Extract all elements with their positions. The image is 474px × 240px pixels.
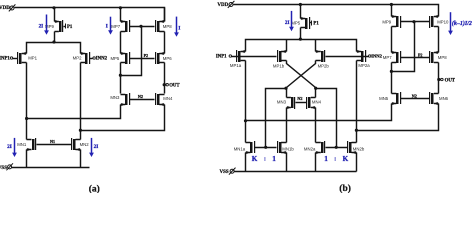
wire L node to MN3 drain xyxy=(286,89,288,98)
wire node A column (b) xyxy=(245,61,247,143)
junction rail-MP9 (b) xyxy=(390,3,393,6)
svg-text:P2: P2 xyxy=(144,53,148,58)
svg-text:I: I xyxy=(178,25,180,31)
wire MP7 source to rail xyxy=(120,8,122,22)
wire INP1 to MP1 gate xyxy=(13,58,18,60)
svg-text:P1: P1 xyxy=(67,25,73,30)
junction R node xyxy=(314,87,317,90)
wire MN4 source to MN2a drain xyxy=(315,108,317,143)
svg-text:VSS: VSS xyxy=(220,170,229,175)
transistor MP9 (b) xyxy=(392,17,397,27)
wire OUT stub (b) xyxy=(439,79,441,81)
svg-text:N1: N1 xyxy=(50,139,55,144)
transistor MP1 xyxy=(22,54,27,63)
terminal INP1 (b) xyxy=(229,55,231,57)
transistor MP5 (tail b) xyxy=(301,19,306,28)
transistor MP2 xyxy=(81,54,86,63)
wire input source bus (a) xyxy=(27,43,81,54)
current arrow 2I tail (b) xyxy=(291,11,293,28)
current arrow I right (a) xyxy=(176,17,178,34)
svg-text:(b): (b) xyxy=(339,183,351,193)
transistor MN1a xyxy=(246,143,251,153)
transistor MN2 xyxy=(76,140,81,150)
current arrow (k-1)I/2 xyxy=(450,12,452,31)
wire node B column (b) xyxy=(356,61,358,143)
transistor MP5 xyxy=(121,54,126,63)
svg-text:VSS: VSS xyxy=(0,166,7,171)
svg-text:INN2: INN2 xyxy=(371,54,382,59)
junction pair2 gates xyxy=(335,146,338,149)
transistor MP7 xyxy=(121,22,126,32)
wire mirror gates to cascode drain (b) xyxy=(392,22,415,72)
wire MN1a source to VSS xyxy=(245,153,247,172)
wire L node to pair1 gates xyxy=(266,89,287,148)
wire VDD rail (b) xyxy=(234,5,439,17)
svg-text:INP1: INP1 xyxy=(216,55,227,60)
svg-text:MN3: MN3 xyxy=(110,95,120,100)
wire MP1b source xyxy=(286,40,288,52)
svg-text:MP2a: MP2a xyxy=(358,63,370,68)
transistor MN5 xyxy=(392,94,397,104)
svg-text:MP2: MP2 xyxy=(73,56,82,61)
junction node B xyxy=(79,129,82,132)
junction tail-bus (b) xyxy=(299,38,302,41)
svg-text:MN4: MN4 xyxy=(312,99,322,104)
wire INP1 gate line xyxy=(232,56,277,58)
transistor MP6 xyxy=(159,54,164,63)
svg-text:MP1b: MP1b xyxy=(273,64,285,69)
transistor MN1b xyxy=(281,143,286,153)
junction node A (b) xyxy=(244,119,247,122)
svg-text:MP5: MP5 xyxy=(110,56,119,61)
junction cascode drain (a) xyxy=(119,74,122,77)
svg-text:2I: 2I xyxy=(94,144,99,150)
wire N1 gate bus xyxy=(37,144,72,146)
wire node A column xyxy=(26,63,28,140)
svg-text:VDD: VDD xyxy=(0,6,10,11)
transistor MP2a xyxy=(357,52,362,61)
wire MP9 source to rail xyxy=(391,5,393,17)
transistor MN4 (b) xyxy=(311,98,316,108)
wire INN2 gate line xyxy=(326,56,369,58)
power VSS symbol (a) xyxy=(8,165,12,169)
transistor MP9 (tail) xyxy=(55,22,59,32)
wire R node to pair2 gates xyxy=(316,89,337,148)
junction pair1 gates xyxy=(264,146,267,149)
terminal INP1 (a) xyxy=(10,57,12,59)
wire node B column xyxy=(80,63,82,140)
wire MN2b source to VSS xyxy=(356,153,358,172)
wire mirror gate bus (b) xyxy=(401,21,430,23)
transistor MP10 xyxy=(434,17,439,27)
power VSS symbol (b) xyxy=(230,169,234,173)
svg-text::: : xyxy=(334,156,336,163)
junction cascode drain (b) xyxy=(390,70,393,73)
wire N2 gate bus right (b) xyxy=(401,98,430,100)
svg-text:P2: P2 xyxy=(418,52,422,57)
svg-text:MN5: MN5 xyxy=(379,96,389,101)
wire MN1 source to VSS xyxy=(26,150,28,168)
wire MP9 drain to MP7 source xyxy=(391,27,393,53)
svg-text:OUT: OUT xyxy=(169,84,180,89)
transistor MN3 (b) xyxy=(287,98,291,108)
wire N2 gate bus center (b) xyxy=(296,102,307,104)
svg-text:K: K xyxy=(343,155,349,163)
svg-text:1: 1 xyxy=(272,155,276,163)
svg-text:MP1a: MP1a xyxy=(230,63,242,68)
svg-text::: : xyxy=(264,156,266,163)
wire MN2a source to VSS xyxy=(315,153,317,172)
svg-text:MP7: MP7 xyxy=(383,55,392,60)
svg-text:MN2b: MN2b xyxy=(353,147,365,152)
current arrow 2I left (a) xyxy=(14,138,16,154)
wire MP5 drain to MN3 drain xyxy=(120,63,122,94)
current arrow 2I right (a) xyxy=(91,138,93,154)
svg-text:K: K xyxy=(252,155,258,163)
transistor MP2b xyxy=(316,52,321,61)
tick node P1 (b) xyxy=(311,21,313,26)
wire MP2b source xyxy=(315,40,317,52)
svg-text:MN2: MN2 xyxy=(80,142,90,147)
current arrow I left (a) xyxy=(110,17,112,31)
wire OUT stub (a) xyxy=(165,84,167,86)
wire MP8 drain to MP6 source xyxy=(164,32,166,54)
svg-text:MN4: MN4 xyxy=(163,96,173,101)
wire diagonal MP1b drain xyxy=(287,61,316,88)
wire INN2 to MP2 gate xyxy=(90,58,93,60)
svg-text:I: I xyxy=(106,24,108,30)
wire P2 gate bus (a) xyxy=(130,58,155,60)
junction tail-bus (a) xyxy=(52,40,55,43)
svg-text:N2: N2 xyxy=(297,96,302,101)
transistor MP8 (b) xyxy=(434,53,439,63)
wire P2 gate bus (b) xyxy=(401,57,430,59)
transistor MP8 xyxy=(159,22,164,32)
wire node B to MN4 source xyxy=(81,105,165,131)
power VDD symbol (b) xyxy=(229,3,233,7)
svg-text:MN1a: MN1a xyxy=(234,147,246,152)
wire MP8 source to rail xyxy=(164,8,166,22)
svg-text:N2: N2 xyxy=(412,93,417,98)
wire MP6 drain to MN4 drain xyxy=(164,63,166,94)
svg-text:P1: P1 xyxy=(313,22,319,27)
junction mirror gates (a) xyxy=(139,25,142,28)
wire MP8 drain to MN6 drain xyxy=(438,63,440,94)
junction rail-tail (b) xyxy=(299,3,302,6)
wire VSS rail (a) xyxy=(12,167,90,169)
svg-text:2I: 2I xyxy=(7,144,12,150)
current arrow 2I tail (a) xyxy=(46,15,48,32)
transistor MN2a xyxy=(316,143,321,153)
svg-text:MP7: MP7 xyxy=(111,24,120,29)
terminal OUT (b) xyxy=(441,78,443,80)
wire diagonal MP2b drain xyxy=(287,61,316,88)
wire tail drain xyxy=(54,32,56,43)
transistor MP1a xyxy=(241,52,246,61)
junction node A xyxy=(25,117,28,120)
transistor MN6 xyxy=(434,94,439,104)
junction rail-tail (a) xyxy=(52,6,55,9)
svg-text:MP9: MP9 xyxy=(382,19,391,24)
wire VSS rail (b) xyxy=(235,171,357,173)
svg-text:MP10: MP10 xyxy=(437,19,449,24)
svg-text:MP8: MP8 xyxy=(163,24,172,29)
wire node A to MN3 source xyxy=(27,105,121,119)
transistor MN4 (a) xyxy=(159,95,164,105)
junction OUT (b) xyxy=(437,78,440,81)
wire R node to MN4 drain xyxy=(315,89,317,98)
wire pair2 gate bus xyxy=(326,147,348,149)
svg-text:MN1: MN1 xyxy=(17,142,27,147)
svg-text:MN1b: MN1b xyxy=(282,147,294,152)
wire MP10 drain to MP8 source xyxy=(438,27,440,53)
svg-text:(k–1)I/2: (k–1)I/2 xyxy=(452,20,472,27)
svg-text:MP8: MP8 xyxy=(438,55,447,60)
svg-text:1: 1 xyxy=(324,155,328,163)
junction rail-MP7 (a) xyxy=(119,6,122,9)
wire node A to MN5 source xyxy=(246,104,392,121)
wire gate stub P1 (b) xyxy=(310,22,312,24)
transistor MP1b xyxy=(281,52,286,61)
terminal INN2 (a) xyxy=(93,57,95,59)
transistor MN2b xyxy=(352,143,357,153)
wire MP7 drain to MN5 drain xyxy=(391,63,393,94)
svg-text:MP6: MP6 xyxy=(163,56,172,61)
svg-text:2I: 2I xyxy=(39,23,44,29)
svg-text:2I: 2I xyxy=(285,20,290,26)
transistor MN3 (a) xyxy=(121,95,126,105)
svg-text:VDD: VDD xyxy=(217,3,228,8)
junction OUT (a) xyxy=(163,83,166,86)
wire gate stub P1 (a) xyxy=(64,26,66,28)
terminal OUT (a) xyxy=(166,84,168,86)
svg-text:(a): (a) xyxy=(89,184,100,194)
svg-text:MP1: MP1 xyxy=(28,56,37,61)
svg-text:INP1: INP1 xyxy=(0,57,10,62)
wire mirror gate bus (a) xyxy=(130,26,155,28)
svg-text:MN3: MN3 xyxy=(277,99,287,104)
svg-text:N2: N2 xyxy=(138,94,143,99)
wire MN1b source to VSS xyxy=(286,153,288,172)
svg-text:MP2b: MP2b xyxy=(318,64,330,69)
terminal INN2 (b) xyxy=(369,55,371,57)
wire MP7 drain to MP5 source xyxy=(120,32,122,54)
tick node P1 (a) xyxy=(65,24,67,29)
junction node B (b) xyxy=(355,129,358,132)
wire tail drain (b) xyxy=(300,28,302,40)
transistor MP7 (b) xyxy=(392,53,397,63)
wire input source bus (b) xyxy=(246,40,357,52)
wire VDD rail (a) xyxy=(15,8,165,22)
junction L node xyxy=(284,87,287,90)
svg-text:MN6: MN6 xyxy=(439,96,449,101)
wire MN2 source to VSS xyxy=(80,150,82,168)
svg-text:INN2: INN2 xyxy=(96,57,108,62)
wire mirror gates to cascode drain (a) xyxy=(121,27,142,76)
svg-text:MN2a: MN2a xyxy=(304,147,316,152)
wire tail source (b) xyxy=(300,5,302,19)
svg-text:MP5: MP5 xyxy=(291,20,300,25)
junction mirror gates (b) xyxy=(412,20,415,23)
wire MN3 source to MN1b drain xyxy=(286,108,288,143)
wire tail source xyxy=(54,8,56,22)
wire node B to MN6 source xyxy=(357,104,439,131)
wire pair1 gate bus xyxy=(255,147,277,149)
transistor MN1 xyxy=(27,140,32,150)
power VDD symbol (a) xyxy=(10,6,14,10)
svg-text:OUT: OUT xyxy=(445,78,456,83)
wire N2 gate bus (a) xyxy=(130,99,155,101)
